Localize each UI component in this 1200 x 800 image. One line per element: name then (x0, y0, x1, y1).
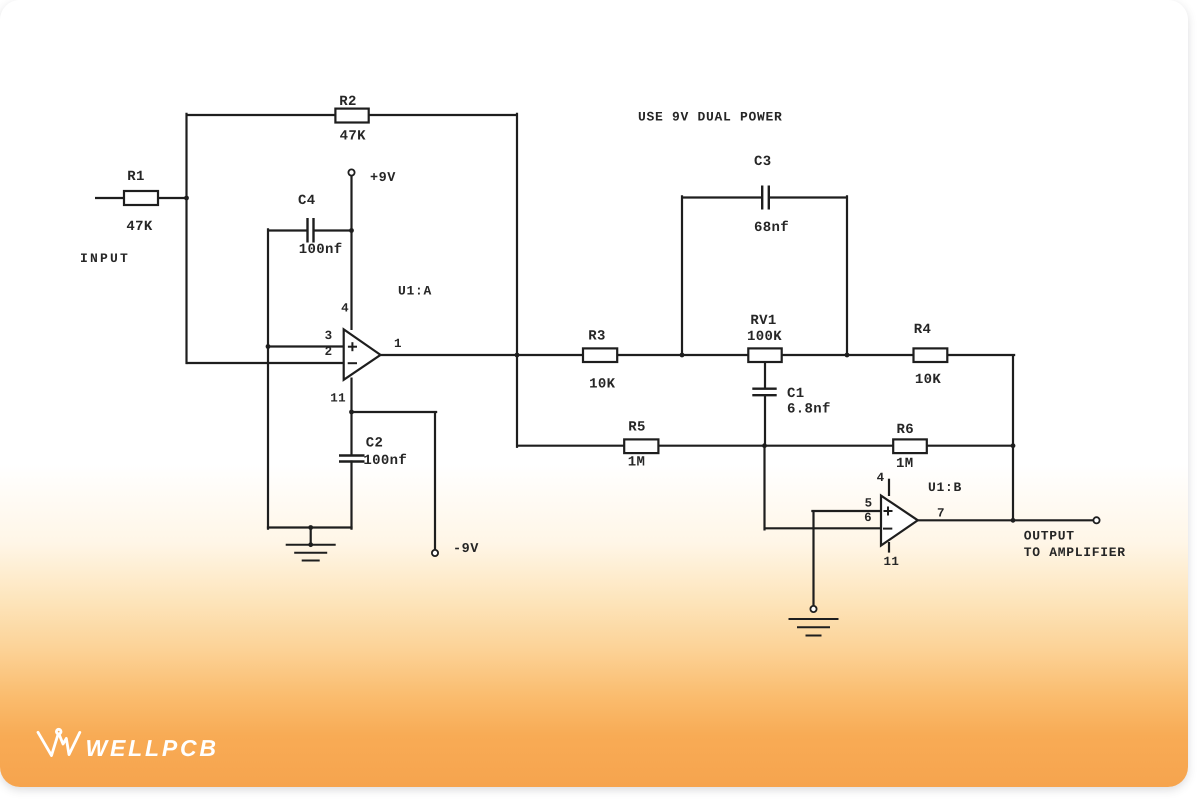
junction node A (R1/R2/pin2) (184, 196, 189, 201)
op-amp U1:A (344, 329, 381, 379)
junction output node (1011, 518, 1016, 523)
U1:B minus symbol (883, 528, 892, 530)
wire vertical x=764.5 to U1:B inverting (763, 446, 765, 530)
wire U1:B output to terminal (917, 519, 1094, 521)
svg-text:5: 5 (865, 497, 873, 511)
junction R6 right (1011, 443, 1016, 448)
svg-text:C3: C3 (754, 154, 772, 170)
svg-text:2: 2 (325, 345, 333, 359)
wire U1:B pin 4 stub (888, 479, 890, 496)
svg-text:6.8nf: 6.8nf (787, 402, 831, 418)
wire C4 left lead (268, 229, 308, 231)
ground 2 symbol (789, 618, 839, 620)
resistor R1 (124, 191, 158, 205)
wire left vertical x=268 (C4 to ground rail) (267, 229, 269, 528)
wire C2 bottom lead (350, 462, 352, 529)
junction ground rail (308, 525, 313, 530)
terminal output (1093, 517, 1099, 523)
svg-text:11: 11 (884, 555, 900, 569)
potentiometer RV1 (748, 348, 781, 362)
svg-text:7: 7 (937, 507, 945, 521)
wire U1:A pin 11 stub (350, 378, 352, 413)
svg-text:-9V: -9V (453, 542, 479, 557)
svg-text:R2: R2 (339, 94, 357, 110)
svg-text:R1: R1 (127, 169, 145, 185)
capacitor C3 plates (761, 186, 763, 210)
svg-text:USE 9V DUAL POWER: USE 9V DUAL POWER (638, 110, 783, 125)
svg-text:1M: 1M (896, 456, 914, 472)
junction pin 3 tap (266, 344, 271, 349)
wire U1:A inverting input (pin 2) (187, 362, 346, 364)
U1:B plus symbol (884, 510, 893, 512)
svg-text:68nf: 68nf (754, 220, 789, 236)
junction C3 left (680, 353, 685, 358)
wire RV1 wiper drop (764, 361, 766, 389)
wire bottom ground rail (267, 526, 353, 528)
svg-text:100K: 100K (747, 329, 782, 345)
svg-text:100nf: 100nf (363, 453, 407, 469)
svg-text:4: 4 (341, 302, 349, 316)
svg-text:U1:A: U1:A (398, 284, 432, 299)
U1:A plus symbol (348, 346, 357, 348)
wire +9V to U1:A pin 4 (350, 176, 352, 331)
svg-text:C2: C2 (366, 435, 384, 451)
wire U1:B pin 11 stub (888, 542, 890, 553)
resistor R4 (914, 348, 948, 362)
wire C1 bottom lead (764, 395, 766, 446)
svg-text:3: 3 (325, 329, 333, 343)
svg-text:1M: 1M (628, 455, 646, 471)
svg-text:6: 6 (864, 511, 872, 525)
svg-text:1: 1 (394, 337, 402, 351)
svg-text:C4: C4 (298, 193, 316, 209)
wire U1:A non-inverting input (pin 3) (268, 345, 345, 347)
capacitor C4 plates (306, 218, 308, 243)
op-amp U1:B (881, 496, 918, 546)
wire node A vertical x=186.5 (185, 114, 187, 363)
junction pin 11 / C2 (349, 410, 354, 415)
resistor R3 (583, 348, 617, 362)
svg-text:4: 4 (877, 471, 885, 485)
resistor R2 (335, 109, 368, 123)
junction C1 / R5 / R6 (762, 443, 767, 448)
capacitor C2 plates (339, 454, 365, 456)
wire U1:B non-inverting input (pin 5) (812, 510, 882, 512)
svg-text:RV1: RV1 (750, 313, 776, 329)
junction node B (output/R2/R3) (515, 353, 520, 358)
wire C3 left lead (682, 196, 762, 198)
svg-text:C1: C1 (787, 386, 805, 402)
capacitor C1 plates (752, 388, 776, 390)
junction ground 1 top bar (308, 542, 313, 547)
svg-text:47K: 47K (126, 219, 153, 235)
wire R5 R6 horizontal rail (517, 445, 1013, 447)
junction C3 right (845, 353, 850, 358)
wire input lead to R1 (95, 197, 124, 199)
svg-text:INPUT: INPUT (80, 251, 130, 266)
wire -9V vertical x=435 (434, 412, 436, 550)
svg-text:R5: R5 (628, 420, 646, 436)
logo W mark (38, 729, 80, 755)
wire C3 left vertical x=682 (681, 196, 683, 355)
svg-text:10K: 10K (915, 372, 942, 388)
svg-text:10K: 10K (589, 376, 616, 392)
svg-text:U1:B: U1:B (928, 480, 962, 495)
wire top feedback left (node A to R2) (187, 114, 337, 116)
wire U1:B inverting input (pin 6) (765, 527, 883, 529)
terminal ground 2 (810, 606, 816, 612)
svg-text:TO AMPLIFIER: TO AMPLIFIER (1024, 545, 1126, 560)
resistor R5 (624, 439, 658, 453)
svg-text:R4: R4 (914, 322, 932, 338)
wire pin 11 to -9V horizontal (352, 411, 437, 413)
svg-text:OUTPUT: OUTPUT (1024, 529, 1075, 544)
terminal +9V (348, 169, 354, 175)
wire node B vertical x=517 (516, 114, 518, 447)
wire right vertical x=1013 (1012, 355, 1014, 520)
svg-text:11: 11 (330, 392, 346, 406)
wire ground 1 stem (310, 528, 312, 545)
wire R1 to node A (158, 197, 188, 199)
svg-text:47K: 47K (340, 129, 367, 145)
wire ground 2 stem (812, 511, 814, 606)
svg-text:+9V: +9V (370, 171, 396, 186)
wire C3 right vertical x=847 (846, 196, 848, 355)
junction C4 / +9V (349, 228, 354, 233)
wire C2 top lead (350, 412, 352, 456)
svg-text:100nf: 100nf (299, 242, 343, 258)
wire C4 right lead (314, 229, 353, 231)
svg-text:R6: R6 (896, 422, 914, 438)
ground 1 symbol (286, 544, 336, 546)
wire U1:A output main horizontal (380, 354, 1014, 356)
U1:A minus symbol (348, 362, 357, 364)
wire C3 right lead (770, 196, 848, 198)
svg-text:R3: R3 (588, 329, 606, 345)
resistor R6 (893, 439, 927, 453)
terminal -9V (432, 550, 438, 556)
svg-text:WELLPCB: WELLPCB (86, 735, 219, 761)
wire top feedback right (R2 to node B) (368, 114, 518, 116)
